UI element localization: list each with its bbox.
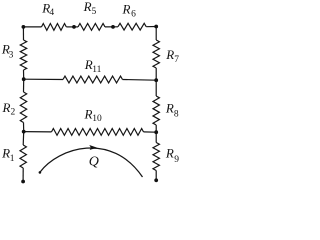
svg-text:8: 8 [174, 109, 179, 119]
wire R4 to node B and to R5 [66, 26, 78, 28]
svg-text:5: 5 [92, 7, 97, 17]
svg-text:R: R [83, 0, 92, 14]
resistor R4 [42, 24, 67, 31]
wire R7 to node F [155, 68, 157, 80]
svg-text:7: 7 [174, 55, 179, 65]
wire R10 to node H [144, 131, 157, 133]
svg-text:11: 11 [92, 65, 101, 75]
node F (R7-R8-R11) [154, 78, 158, 82]
resistor R8 [153, 96, 159, 125]
node G (R2-R1-R10) [22, 130, 26, 134]
wire R5 to node C and to R6 [105, 26, 118, 28]
svg-text:R: R [2, 100, 11, 115]
resistor R9 [153, 143, 159, 171]
arrowhead on arc [89, 145, 97, 150]
svg-text:10: 10 [92, 114, 102, 124]
wire G down to R1 [22, 132, 25, 145]
resistor R11 [63, 76, 123, 83]
resistor R1 [20, 145, 26, 168]
node A (top-left) [22, 25, 26, 29]
wire R11 to node F [123, 79, 157, 82]
charge-flow arc Q [40, 148, 143, 177]
wire R1 to bottom-left terminal I [22, 168, 24, 181]
resistor R2 [20, 92, 26, 123]
resistor R7 [153, 40, 159, 68]
svg-text:R: R [165, 47, 174, 62]
resistor R5 [78, 24, 105, 31]
node C (R5-R6) [111, 25, 115, 29]
wire E to R11 [24, 78, 63, 80]
wire top-left A to R4 [23, 26, 41, 28]
wire R6 to top-right D [146, 26, 156, 28]
node E (R3-R2-R11) [22, 77, 26, 81]
svg-text:R: R [165, 101, 174, 116]
node D (top-right) [154, 25, 158, 29]
svg-text:6: 6 [131, 9, 136, 19]
svg-text:3: 3 [9, 50, 14, 60]
svg-text:Q: Q [89, 155, 99, 170]
node B (R4-R5) [72, 25, 76, 29]
resistor R10 [52, 129, 144, 136]
wire R2 to node G [23, 123, 25, 132]
resistor R6 [118, 23, 146, 30]
wire E down to R2 [23, 79, 25, 92]
circuit: resistor ladder network with charge flow Q [0, 0, 198, 188]
wire G to R10 [24, 131, 52, 133]
wire R8 to node H [155, 125, 157, 132]
resistor R3 [20, 40, 26, 70]
terminal I (bottom-left) [21, 180, 25, 184]
wire D down to R7 [155, 27, 157, 41]
node H (R8-R9-R10) [154, 130, 158, 134]
svg-text:R: R [165, 146, 174, 161]
svg-text:2: 2 [11, 108, 16, 118]
svg-text:R: R [84, 106, 93, 121]
wire A down to R3 [22, 27, 24, 40]
svg-text:1: 1 [10, 154, 15, 164]
wire F down to R8 [155, 80, 157, 96]
wire R9 to bottom-right terminal J [155, 171, 157, 181]
wire H down to R9 [155, 132, 157, 142]
terminal J (bottom-right) [154, 178, 158, 182]
svg-text:4: 4 [49, 8, 54, 18]
wire R3 to node E [23, 70, 25, 79]
svg-text:R: R [122, 1, 131, 16]
svg-text:9: 9 [174, 155, 179, 165]
